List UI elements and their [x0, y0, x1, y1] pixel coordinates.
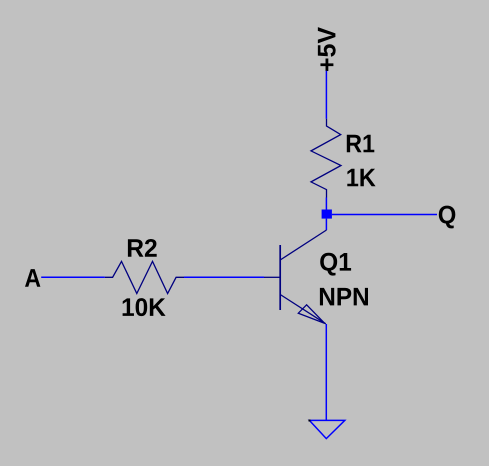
wire: +5V lead	[325, 71, 327, 119]
wire: A to R2	[41, 276, 105, 278]
ground	[309, 420, 344, 438]
wire: node to collector	[325, 219, 327, 230]
wire: R1 to node	[325, 198, 327, 210]
transistor Q1 emitter lead	[280, 295, 326, 324]
transistor Q1 collector lead	[280, 230, 326, 260]
wire: emitter to ground	[325, 324, 327, 420]
power label +5V	[318, 27, 336, 71]
label A	[25, 269, 40, 287]
resistor R2	[105, 261, 184, 293]
label R2	[128, 239, 157, 257]
label R1	[347, 135, 375, 153]
wire: R2 to base	[184, 276, 264, 278]
resistor R1	[311, 119, 341, 198]
label Q	[439, 206, 456, 229]
transistor Q1 base bar	[279, 245, 281, 310]
transistor Q1 base pin	[264, 276, 280, 278]
node junction square	[322, 210, 332, 219]
label 1K	[347, 169, 375, 187]
label NPN	[320, 288, 368, 306]
label 10K	[123, 298, 166, 316]
transistor Q1 emitter arrow	[298, 305, 325, 324]
label Q1	[320, 253, 351, 276]
wire: node to Q output	[332, 214, 437, 216]
ground corner dot	[309, 420, 311, 422]
